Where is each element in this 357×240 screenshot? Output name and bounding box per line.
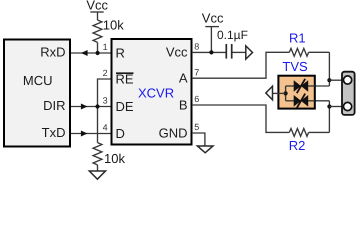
svg-text:DE: DE (116, 99, 134, 114)
svg-text:5: 5 (194, 122, 199, 132)
node junction B/connector (327, 104, 331, 108)
diode pair top (bidirectional TVS) (294, 79, 309, 93)
connector pin B circle (344, 102, 352, 110)
svg-text:2: 2 (103, 68, 108, 78)
svg-text:R: R (116, 46, 125, 61)
svg-text:B: B (179, 97, 188, 112)
connector J1 (342, 72, 355, 115)
power Vcc right (202, 11, 224, 53)
ground right of capacitor (246, 46, 253, 59)
wire GND pin 5 (192, 133, 205, 146)
svg-text:XCVR: XCVR (138, 85, 174, 100)
svg-text:D: D (116, 126, 125, 141)
wire TVS top channel inside (286, 85, 294, 87)
arrow DIR (right) (81, 104, 88, 110)
wire DIR net (71, 106, 111, 108)
svg-text:4: 4 (103, 123, 108, 133)
XCVR box U1 (112, 39, 192, 145)
resistor R1 (289, 31, 329, 57)
wire B net (192, 105, 289, 132)
TVS box D1 (278, 76, 314, 109)
wire B rise to bus pin (328, 101, 330, 133)
svg-text:10k: 10k (103, 17, 124, 32)
svg-text:MCU: MCU (23, 73, 53, 88)
svg-text:DIR: DIR (43, 98, 65, 113)
node junction DIR/DE (95, 104, 99, 108)
arrow TxD (right) (81, 131, 88, 137)
svg-text:R2: R2 (289, 138, 306, 153)
node junction Vcc (209, 50, 213, 54)
svg-text:RxD: RxD (40, 45, 65, 60)
wire TVS common leg (285, 86, 287, 101)
resistor R2 (289, 129, 330, 154)
wire RxD net (71, 52, 111, 54)
arrow RxD (left) (81, 50, 88, 56)
wire Vcc pin 8 (192, 51, 226, 53)
svg-text:GND: GND (159, 125, 188, 140)
node junction A/connector (327, 78, 331, 82)
svg-text:Vcc: Vcc (166, 45, 188, 60)
wire A net (192, 52, 289, 78)
svg-text:TxD: TxD (42, 125, 66, 140)
svg-text:Vcc: Vcc (202, 11, 224, 26)
svg-text:R1: R1 (289, 31, 306, 46)
resistor pull-down 10k (93, 143, 125, 171)
wire TVS bottom channel (286, 100, 330, 102)
diode pair bottom (bidirectional TVS) (294, 94, 309, 108)
wire A to connector (329, 79, 342, 81)
wire A drop to bus pin (328, 52, 330, 86)
svg-text:Vcc: Vcc (86, 0, 108, 12)
power Vcc left (86, 0, 108, 20)
ground left of TVS (266, 86, 273, 100)
ground under pull-down (89, 171, 105, 179)
node junction TVS common (284, 91, 288, 95)
svg-text:8: 8 (194, 42, 199, 52)
wire B to connector (329, 106, 342, 108)
wire TVS top channel (286, 85, 330, 87)
svg-text:6: 6 (194, 94, 199, 104)
svg-text:TVS: TVS (282, 59, 308, 74)
svg-text:A: A (179, 71, 188, 86)
resistor R pull-up 10k (93, 17, 124, 53)
svg-text:10k: 10k (104, 151, 125, 166)
connector pin A circle (344, 76, 352, 84)
svg-text:7: 7 (194, 67, 199, 77)
svg-text:0.1µF: 0.1µF (217, 28, 248, 42)
ground under pin 5 (197, 146, 213, 153)
wire TVS ground stub (273, 92, 286, 94)
wire TVS bottom channel inside (286, 100, 294, 102)
capacitor C1 0.1uF (217, 28, 248, 59)
svg-text:1: 1 (103, 42, 108, 52)
wire RE-DE tie and pull-down drop (98, 79, 112, 143)
MCU box (4, 40, 70, 147)
node junction R/RxD (96, 51, 100, 55)
wire TxD net (71, 133, 111, 135)
svg-text:3: 3 (103, 96, 108, 106)
